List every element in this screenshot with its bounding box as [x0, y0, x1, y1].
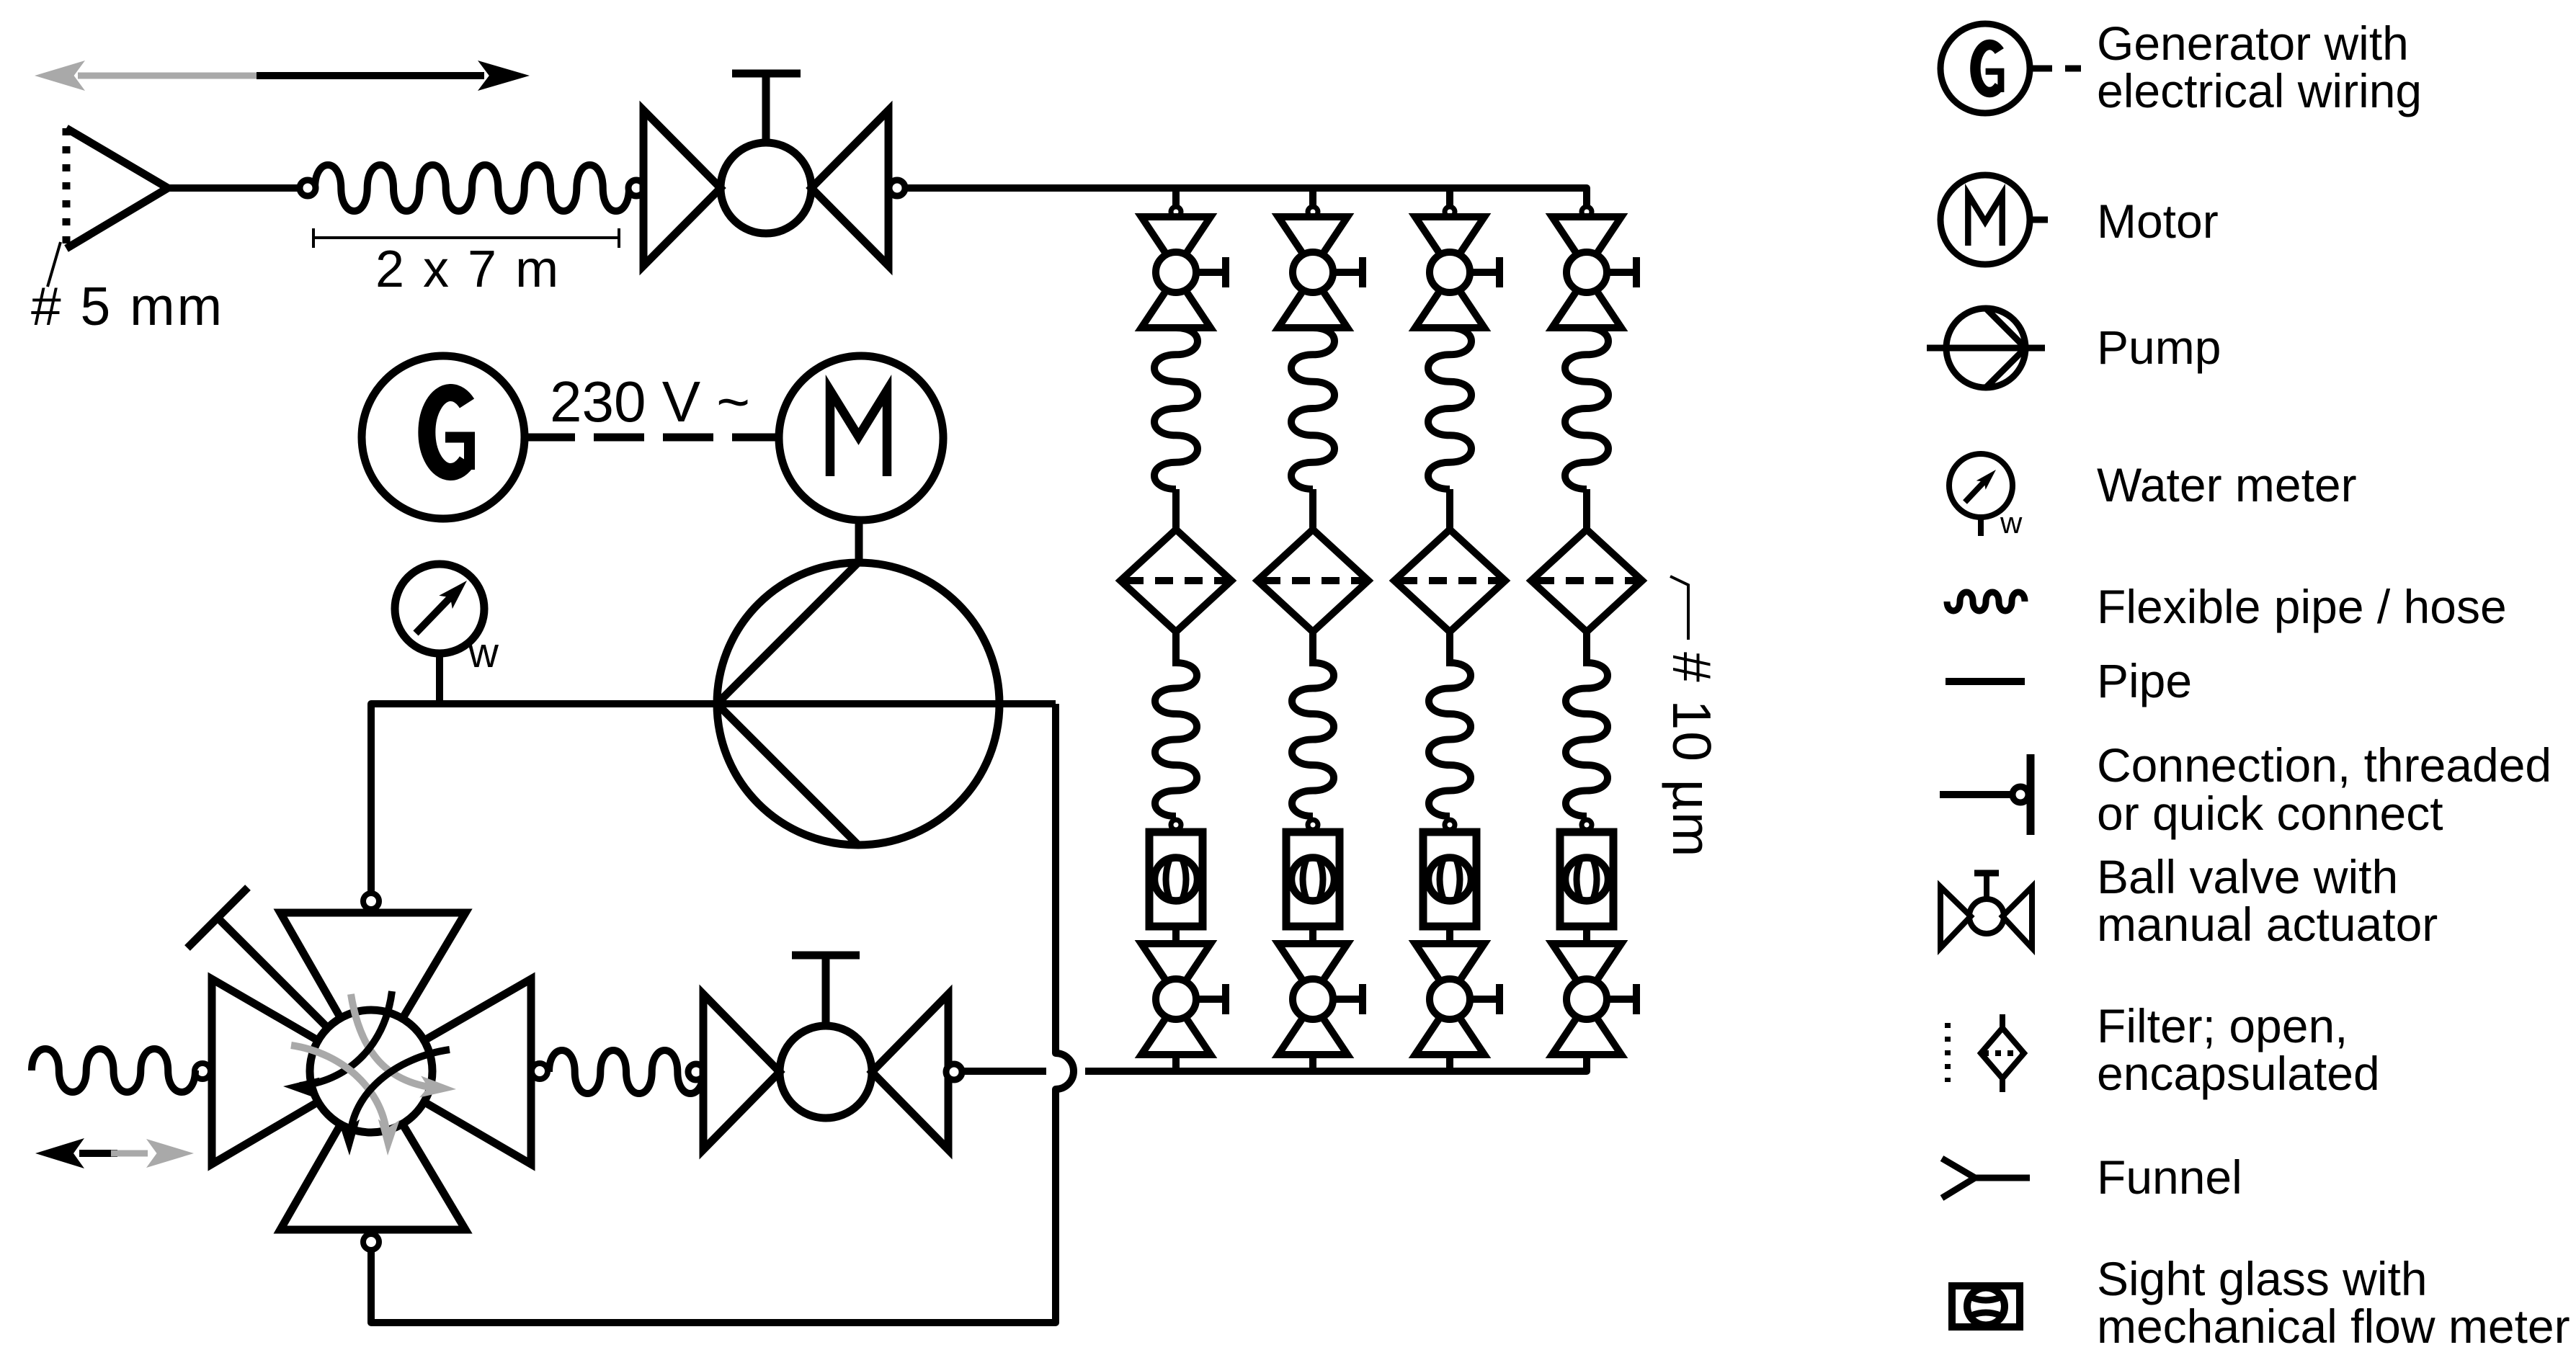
- branch 3 upper ball valve V3a: [1415, 217, 1484, 328]
- branch 3 lower ball valve V3b: [1415, 944, 1484, 1055]
- svg-text:manual actuator: manual actuator: [2097, 898, 2438, 951]
- svg-text:w: w: [468, 630, 499, 676]
- legend pump symbol: [1927, 308, 2045, 388]
- branch 2 pipe sight glass to valve: [1309, 928, 1316, 945]
- branch 1 sight glass fitting: [1171, 820, 1181, 830]
- svg-text:mechanical flow meter: mechanical flow meter: [2097, 1300, 2570, 1353]
- ball valve V1 actuator: [732, 73, 801, 143]
- 4-way valve X1 bottom segment: [280, 1124, 465, 1230]
- branch 4 sight glass fitting: [1582, 820, 1592, 830]
- branch 1 sight glass SG1: [1149, 832, 1203, 926]
- svg-text:Water meter: Water meter: [2097, 458, 2357, 511]
- branch 4 upper flexible hose: [1565, 328, 1608, 489]
- svg-text:Motor: Motor: [2097, 195, 2219, 248]
- legend sight glass symbol: [1952, 1286, 2020, 1327]
- legend generator letter: [1975, 45, 2000, 92]
- 4-way valve X1 flow arrow grey left-bottom: [291, 1045, 387, 1138]
- svg-text:Funnel: Funnel: [2097, 1150, 2242, 1204]
- legend funnel symbol: [1942, 1158, 2030, 1198]
- branch 4 pipe filter to hose: [1583, 632, 1590, 666]
- svg-text:w: w: [2000, 506, 2023, 540]
- branch 3 valve V3a handle (threaded connection): [1470, 257, 1499, 287]
- branch 4 upper ball valve V4a: [1552, 217, 1621, 328]
- generator G1 letter: [427, 393, 469, 472]
- legend connection symbol: [1940, 754, 2031, 835]
- drain arrow grey (right): [111, 1139, 194, 1168]
- dimension line 2 x 7 m: [313, 228, 619, 248]
- pipe valve V2 to manifold: [963, 1068, 1046, 1075]
- funnel F1: [66, 128, 168, 249]
- svg-text:Pipe: Pipe: [2097, 654, 2192, 707]
- hose H2 right end fitting: [688, 1064, 704, 1080]
- branch 4 pipe sight glass to valve: [1583, 928, 1590, 945]
- svg-text:# 10 µm: # 10 µm: [1662, 652, 1722, 859]
- 4-way valve X1 port fitting top: [363, 893, 379, 909]
- svg-text:2 x 7 m: 2 x 7 m: [375, 241, 561, 298]
- branch 1 valve V1b handle (threaded connection): [1196, 984, 1226, 1014]
- branch 4 inlet fitting: [1582, 207, 1592, 217]
- legend motor symbol: [1940, 175, 2048, 264]
- drain arrow black (left): [35, 1138, 117, 1168]
- svg-text:Sight glass with: Sight glass with: [2097, 1252, 2428, 1305]
- 4-way valve X1 top segment: [280, 913, 465, 1019]
- 4-way valve X1 flow arrow black top-left: [300, 991, 392, 1086]
- branch 3 stem from top manifold: [1446, 188, 1453, 207]
- generator G1 symbol: [362, 356, 525, 519]
- branch 4 filter F4 (10 um): [1531, 529, 1642, 632]
- 4-way valve X1 flow arrow black right-bottom: [350, 1050, 450, 1138]
- label leader # 5 mm: [48, 242, 61, 287]
- legend water meter symbol: [1949, 454, 2013, 536]
- flow direction arrow grey (left): [35, 61, 257, 91]
- branch 2 lower flexible hose: [1292, 663, 1334, 816]
- label leader # 10 um: [1670, 576, 1688, 640]
- svg-text:Ball valve with: Ball valve with: [2097, 850, 2398, 903]
- flexible hose H2: [549, 1050, 703, 1094]
- branch 3 upper flexible hose: [1428, 328, 1471, 489]
- branch 2 lower ball valve V2b: [1278, 944, 1347, 1055]
- hose H1 right end fitting: [628, 180, 644, 196]
- 4-way valve X1 ball: [310, 1010, 432, 1132]
- svg-text:Filter; open,: Filter; open,: [2097, 999, 2348, 1052]
- branch 1 inlet fitting: [1171, 207, 1181, 217]
- legend filter symbol: [1948, 1014, 2024, 1092]
- branch 1 upper ball valve V1a: [1141, 217, 1211, 328]
- pump P1: [717, 563, 999, 845]
- svg-text:or quick connect: or quick connect: [2097, 787, 2443, 840]
- motor M1 symbol: [779, 356, 943, 520]
- branch 4 sight glass SG4: [1560, 832, 1613, 926]
- 4-way valve X1 flow arrow grey top-right: [351, 994, 441, 1088]
- branch 3 lower flexible hose: [1429, 663, 1471, 816]
- branch 3 pipe filter to hose: [1446, 632, 1453, 666]
- branch 4 lower flexible hose: [1566, 663, 1608, 816]
- legend generator symbol: [1940, 24, 2081, 113]
- svg-text:Pump: Pump: [2097, 321, 2221, 374]
- branch 3 inlet fitting: [1445, 207, 1455, 217]
- branch 2 pipe filter to hose: [1309, 632, 1316, 666]
- ball valve V1 outlet fitting: [889, 180, 905, 196]
- motor M1 letter: [830, 390, 887, 476]
- branch 3 sight glass SG3: [1423, 832, 1476, 926]
- svg-text:# 5 mm: # 5 mm: [31, 276, 224, 336]
- branch 4 stems at manifold corners: [1583, 1055, 1590, 1071]
- 4-way valve X1 port fitting left: [195, 1063, 210, 1079]
- 4-way valve X1 port fitting right: [532, 1063, 548, 1079]
- branch 3 stem to bottom manifold: [1446, 1055, 1453, 1071]
- flow direction arrow black (right): [257, 61, 530, 91]
- 4-way valve X1 actuator: [187, 888, 328, 1028]
- pipe bottom manifold: [1085, 1055, 1587, 1071]
- branch 2 upper ball valve V2a: [1278, 217, 1347, 328]
- legend motor letter: [1968, 195, 2002, 246]
- branch 1 pipe sight glass to valve: [1172, 928, 1180, 945]
- branch 1 stem to bottom manifold: [1172, 1055, 1180, 1071]
- branch 1 pipe filter to hose: [1172, 632, 1180, 666]
- svg-text:Generator with: Generator with: [2097, 17, 2409, 70]
- ball valve V2 outlet fitting: [946, 1064, 962, 1080]
- water meter W1: [395, 564, 484, 700]
- branch 3 sight glass fitting: [1445, 820, 1455, 830]
- legend pipe symbol: [1946, 678, 2025, 685]
- branch 2 valve V2b handle (threaded connection): [1333, 984, 1363, 1014]
- flexible hose H3 (drain): [32, 1049, 195, 1092]
- pipe top manifold: [904, 188, 1587, 207]
- svg-text:Flexible pipe / hose: Flexible pipe / hose: [2097, 580, 2507, 633]
- branch 2 valve V2a handle (threaded connection): [1333, 257, 1363, 287]
- branch 2 stem to bottom manifold: [1309, 1055, 1316, 1071]
- pipe suction line (4-way top to pump): [371, 704, 1056, 893]
- branch 2 inlet fitting: [1308, 207, 1318, 217]
- branch 1 lower ball valve V1b: [1141, 944, 1211, 1055]
- ball valve V1 body: [643, 110, 888, 266]
- branch 1 pipe to filter: [1172, 489, 1180, 531]
- branch 2 pipe to filter: [1309, 489, 1316, 531]
- ball valve V2 body: [703, 994, 948, 1150]
- branch 2 sight glass fitting: [1308, 820, 1318, 830]
- pipe return riser with crossing hop: [371, 704, 1074, 1323]
- 4-way valve X1 right segment: [424, 979, 531, 1164]
- branch 3 filter F3 (10 um): [1394, 529, 1505, 632]
- branch 4 lower ball valve V4b: [1552, 944, 1621, 1055]
- branch 1 upper flexible hose: [1154, 328, 1198, 489]
- electrical wiring G1 to M1: [525, 434, 779, 442]
- branch 2 sight glass SG2: [1286, 832, 1340, 926]
- branch 3 pipe sight glass to valve: [1446, 928, 1453, 945]
- branch 1 filter F1 (10 um): [1120, 529, 1231, 632]
- 4-way valve X1 port fitting bottom: [363, 1234, 379, 1250]
- legend flexible hose symbol: [1947, 592, 2025, 611]
- hose H1 left end fitting: [300, 180, 316, 196]
- svg-text:Connection, threaded: Connection, threaded: [2097, 738, 2552, 792]
- flexible hose H1 (2 x 7 m): [315, 165, 629, 211]
- branch 4 valve V4b handle (threaded connection): [1607, 984, 1636, 1014]
- svg-text:230 V ~: 230 V ~: [550, 370, 750, 434]
- shaft M1 to pump: [855, 520, 863, 563]
- ball valve V2 actuator: [792, 955, 860, 1026]
- branch 2 stem from top manifold: [1309, 188, 1316, 207]
- branch 4 pipe to filter: [1583, 489, 1590, 531]
- branch 2 filter F2 (10 um): [1257, 529, 1368, 632]
- branch 1 stem from top manifold: [1172, 188, 1180, 207]
- svg-text:electrical wiring: electrical wiring: [2097, 64, 2422, 117]
- pipe funnel to hose: [168, 184, 303, 192]
- branch 1 valve V1a handle (threaded connection): [1196, 257, 1226, 287]
- 4-way valve X1 left segment: [212, 979, 318, 1164]
- branch 3 pipe to filter: [1446, 489, 1453, 531]
- branch 3 valve V3b handle (threaded connection): [1470, 984, 1499, 1014]
- svg-text:encapsulated: encapsulated: [2097, 1047, 2380, 1100]
- legend ball valve symbol: [1940, 873, 2032, 948]
- branch 1 lower flexible hose: [1155, 663, 1197, 816]
- branch 4 valve V4a handle (threaded connection): [1607, 257, 1636, 287]
- branch 2 upper flexible hose: [1291, 328, 1334, 489]
